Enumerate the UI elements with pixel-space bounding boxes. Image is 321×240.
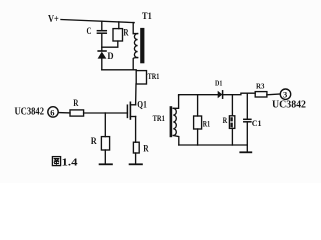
- wire D1 to rail step: [223, 93, 256, 95]
- transistor Q1: [127, 101, 147, 120]
- wire R2 branch drop: [231, 95, 233, 116]
- core T1: [140, 28, 144, 63]
- wire secondary loop bottom rail: [179, 144, 248, 146]
- svg-text:R: R: [223, 116, 228, 125]
- resistor R2 (box with dark inner bar): [223, 116, 235, 129]
- svg-text:UC3842: UC3842: [272, 100, 306, 111]
- wire R bottom L to diode node: [102, 41, 118, 47]
- transformer T1 label: [142, 12, 152, 22]
- svg-text:1.4: 1.4: [62, 158, 79, 169]
- capacitor C1: [244, 118, 262, 128]
- capacitor C: [87, 26, 107, 36]
- wire R1 to bottom rail: [197, 129, 199, 145]
- svg-text:UC3842: UC3842: [15, 107, 45, 118]
- svg-text:C: C: [87, 26, 92, 36]
- wire C1 to bottom rail: [246, 122, 248, 145]
- pin 3 circle: [280, 89, 290, 100]
- diode D: [98, 51, 114, 61]
- ground (left): [100, 163, 112, 165]
- ground (source R): [130, 163, 142, 165]
- label TR1 (primary): [148, 71, 160, 81]
- svg-text:R1: R1: [203, 119, 210, 129]
- label figure 1.4 (hand-drawn 图 glyph + text): [52, 157, 78, 169]
- label UC3842 (right): [272, 100, 306, 111]
- svg-text:TR1: TR1: [153, 113, 165, 123]
- svg-text:R: R: [123, 28, 129, 38]
- wire source R to ground: [135, 153, 137, 164]
- svg-text:TR1: TR1: [148, 71, 160, 81]
- winding TR1 secondary coil: [173, 108, 176, 135]
- wire Q1 source down: [135, 117, 137, 143]
- diode D1: [215, 79, 223, 99]
- wire pulldown R to ground: [104, 150, 106, 164]
- transformer TR1 secondary label: [153, 113, 165, 123]
- winding T1 primary coil: [134, 34, 137, 58]
- ground (secondary): [240, 145, 251, 152]
- svg-text:R: R: [143, 144, 149, 154]
- svg-text:R: R: [91, 136, 97, 146]
- node V+ label: [48, 14, 59, 25]
- svg-text:R3: R3: [256, 82, 265, 91]
- wire pin6 to gate resistor: [58, 112, 70, 114]
- svg-text:3: 3: [283, 90, 287, 100]
- wire C1 branch drop: [246, 93, 248, 119]
- wire R3 to pin 3: [267, 93, 280, 96]
- wire snubber C branch drop: [101, 21, 103, 30]
- wire junction drop to lower R: [104, 113, 106, 137]
- svg-text:R: R: [73, 98, 79, 108]
- resistor R3: [255, 82, 267, 97]
- svg-text:Q1: Q1: [137, 101, 147, 111]
- wire TR1 box bottom to Q1 drain: [135, 84, 137, 105]
- resistor R (gate series): [70, 98, 84, 116]
- resistor R (source): [133, 142, 149, 153]
- resistor R (gate pulldown): [91, 136, 110, 150]
- wire T1 primary top lead: [132, 23, 135, 34]
- wire snubber R branch drop: [118, 22, 120, 29]
- wire TR1 coil bottom lead: [173, 136, 179, 146]
- svg-text:V+: V+: [48, 14, 59, 25]
- label UC3842 (left): [15, 107, 45, 118]
- core TR1: [170, 106, 173, 137]
- transformer TR1 primary (box on drain wire): [136, 71, 146, 84]
- wire R2 to bottom rail: [231, 128, 233, 145]
- wire TR1 coil top lead: [173, 96, 178, 109]
- svg-text:6: 6: [50, 107, 54, 117]
- pin 6 circle: [48, 107, 58, 118]
- wire V+ top rail: [61, 20, 134, 23]
- wire R1 branch drop: [197, 95, 199, 116]
- svg-text:D1: D1: [215, 79, 223, 88]
- wire C bottom to diode: [101, 34, 103, 51]
- resistor R1: [194, 116, 211, 129]
- svg-text:T1: T1: [142, 12, 152, 22]
- wire gate resistor to Q1 gate: [84, 112, 128, 114]
- wire T1 primary coil ends: [133, 34, 137, 70]
- wire diode anode down: [101, 59, 103, 70]
- wire secondary loop top rail: [179, 94, 218, 97]
- svg-text:C1: C1: [252, 118, 262, 128]
- wire snubber bottom horizontal to drain node: [102, 69, 136, 71]
- resistor R (snubber): [113, 28, 129, 42]
- svg-text:D: D: [107, 51, 114, 61]
